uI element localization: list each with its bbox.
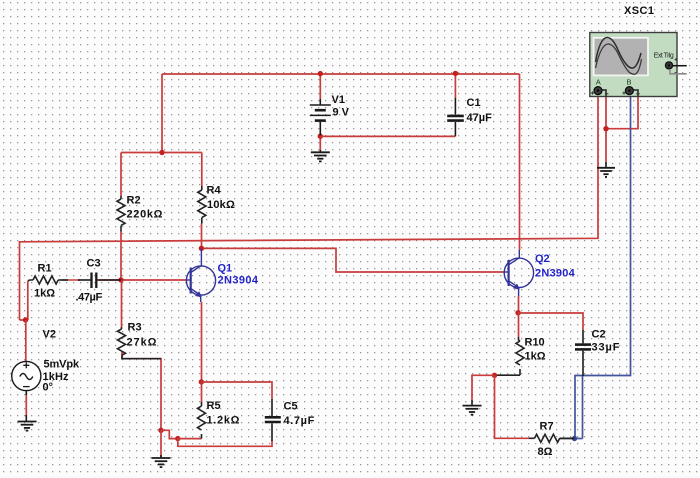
svg-text:R2: R2: [127, 195, 141, 207]
svg-text:R4: R4: [207, 185, 222, 197]
ground R10: [463, 400, 482, 415]
svg-text:2N3904: 2N3904: [535, 268, 576, 280]
svg-text:1kΩ: 1kΩ: [34, 288, 55, 300]
node R3 ground: [158, 428, 163, 433]
svg-text:8Ω: 8Ω: [538, 446, 553, 458]
capacitor C2: [575, 330, 591, 376]
wire R2 top: [120, 153, 122, 197]
wire base Q1: [99, 279, 187, 281]
wire jog to R5 bottom node: [161, 430, 178, 438]
svg-text:R5: R5: [207, 400, 221, 412]
svg-text:R7: R7: [540, 421, 554, 433]
node V1 top: [318, 71, 323, 76]
svg-text:47µF: 47µF: [467, 112, 493, 124]
wire R2 bottom to base node: [120, 232, 122, 280]
node input: [23, 317, 28, 322]
wire V1 top: [319, 74, 321, 99]
wire V1 bottom to ground: [319, 136, 321, 151]
wire emitter to C5: [201, 382, 272, 399]
capacitor C1: [447, 98, 464, 136]
wire V1 to C1 bottom: [320, 135, 455, 137]
transistor Q2: [504, 250, 533, 296]
oscilloscope XSC1: [590, 33, 687, 97]
svg-text:33µF: 33µF: [592, 342, 620, 354]
svg-text:V1: V1: [332, 94, 345, 106]
wire to R7: [495, 375, 530, 438]
svg-text:R3: R3: [128, 322, 142, 334]
node R5 bottom: [175, 436, 180, 441]
svg-text:Ext Trig: Ext Trig: [654, 53, 674, 60]
wire R2/R4 top rail: [121, 152, 202, 154]
wire Q1 emitter: [201, 302, 203, 382]
svg-text:10kΩ: 10kΩ: [207, 199, 235, 211]
node C1 top: [453, 71, 458, 76]
svg-text:V2: V2: [43, 328, 56, 340]
wire VCC top rail: [162, 73, 520, 75]
svg-text:1kΩ: 1kΩ: [525, 351, 546, 363]
node rail junction: [159, 150, 164, 155]
svg-text:C2: C2: [592, 329, 606, 341]
wire to ground R10: [472, 375, 495, 400]
svg-text:.47µF: .47µF: [76, 292, 103, 304]
wire input node feed (long A+ wire): [20, 94, 599, 320]
svg-text:C3: C3: [87, 258, 101, 270]
svg-text:9 V: 9 V: [333, 106, 350, 118]
wire collector Q1 to base Q2: [201, 248, 504, 272]
svg-text:A: A: [596, 78, 601, 87]
svg-text:XSC1: XSC1: [624, 5, 654, 17]
wire scope B minus: [606, 96, 638, 129]
ground main: [152, 455, 171, 467]
svg-text:27kΩ: 27kΩ: [127, 337, 157, 349]
wire R4 bottom to collector node: [201, 224, 203, 249]
svg-text:Q1: Q1: [218, 263, 233, 275]
wire R3 top: [121, 280, 123, 327]
capacitor C5: [265, 399, 281, 441]
wire R7 right lead: [560, 438, 575, 440]
resistor R3: [118, 327, 162, 359]
svg-text:1.2kΩ: 1.2kΩ: [207, 415, 240, 427]
svg-text:2N3904: 2N3904: [218, 275, 259, 287]
ground scope: [597, 162, 615, 177]
svg-text:C5: C5: [284, 401, 298, 413]
wire scope A minus: [605, 96, 607, 162]
svg-text:B: B: [627, 78, 632, 87]
capacitor C3: [78, 273, 121, 289]
resistor R7: [529, 434, 575, 442]
wire C1 top: [454, 73, 456, 98]
svg-text:Q2: Q2: [535, 253, 550, 265]
wire Q2 emitter: [518, 296, 520, 313]
wire V2 top: [25, 320, 27, 361]
node base Q1: [118, 277, 123, 282]
wire R1-C3 mid: [62, 279, 80, 281]
resistor R4: [198, 186, 206, 224]
resistor R5: [198, 402, 206, 439]
wire blue joint: [575, 438, 583, 440]
wire ground drop main: [160, 430, 162, 457]
svg-text:R1: R1: [38, 263, 52, 275]
svg-text:5mVpk: 5mVpk: [44, 359, 80, 371]
svg-text:4.7µF: 4.7µF: [284, 415, 315, 427]
wire Q2 collector: [519, 74, 521, 250]
node collector Q1: [199, 246, 204, 251]
wire R4 top: [201, 153, 203, 187]
battery V1: [310, 99, 331, 136]
wire scope B plus (blue): [575, 94, 631, 439]
node V1 bottom: [318, 134, 323, 139]
node emitter Q2: [515, 310, 520, 315]
wire input jog: [20, 319, 26, 321]
wire R1 left drop: [27, 281, 29, 320]
svg-text:R10: R10: [525, 337, 545, 349]
resistor R2: [117, 196, 125, 232]
wire emitter to R5: [201, 382, 203, 402]
wire C5 bottom return: [178, 439, 272, 447]
svg-text:0°: 0°: [43, 382, 54, 394]
wire VCC rail left drop: [161, 74, 163, 153]
svg-text:220kΩ: 220kΩ: [127, 209, 163, 221]
resistor R10: [516, 337, 524, 375]
node R10 bottom: [492, 373, 497, 378]
svg-text:C1: C1: [467, 97, 481, 109]
ground V1: [311, 150, 330, 161]
resistor R1: [28, 276, 68, 284]
wire C2 bottom blue drop: [582, 376, 584, 439]
node scope minus junction: [603, 126, 608, 131]
transistor Q1: [186, 249, 215, 303]
wire emitter Q2 to C2: [518, 313, 583, 330]
wire R5 bottom horizontal: [178, 438, 202, 440]
ground V2: [18, 422, 37, 431]
wire R3 bottom dogleg: [122, 352, 161, 430]
node output blue: [572, 436, 577, 441]
node emitter Q1: [199, 379, 204, 384]
wire R10 bottom: [495, 374, 521, 376]
wire emitter Q2 to R10: [518, 313, 520, 337]
source V2: [12, 361, 41, 421]
